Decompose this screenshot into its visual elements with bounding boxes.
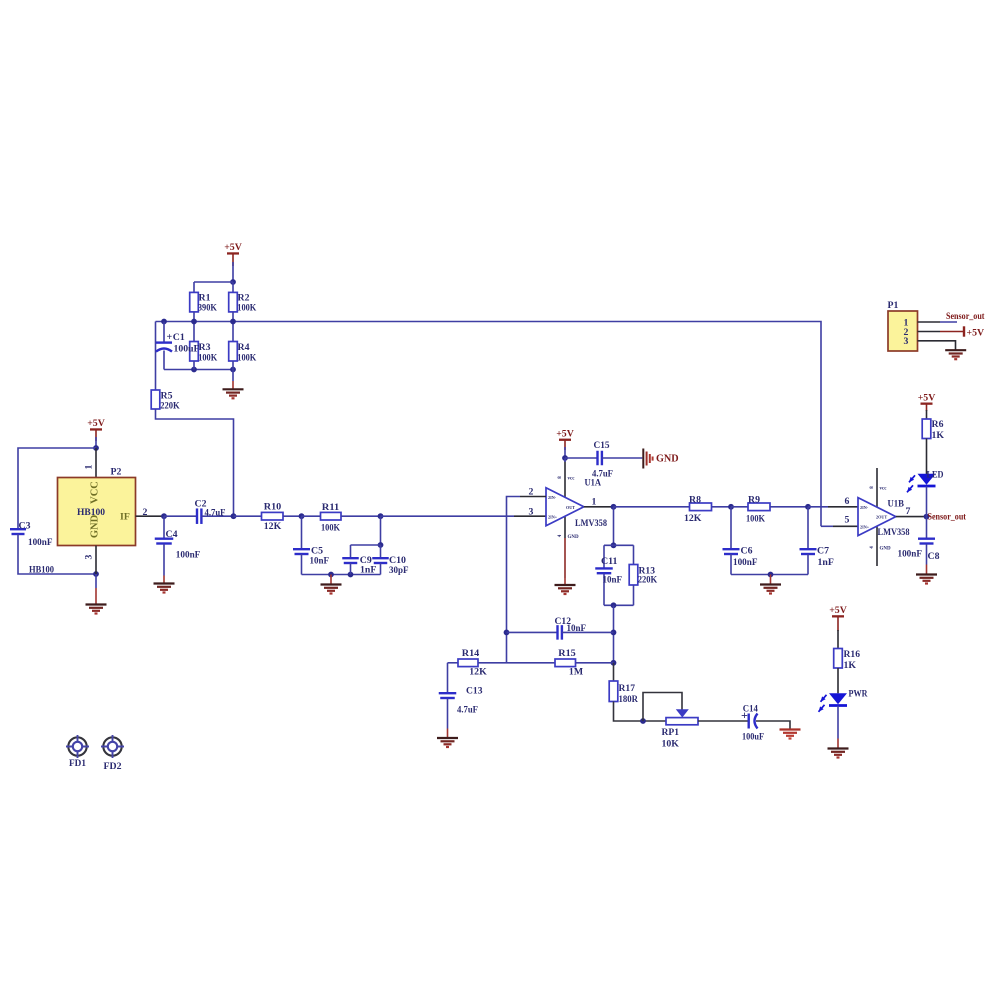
wire C6 top stem — [730, 507, 732, 549]
capacitor C3 — [10, 529, 26, 534]
svg-text:7: 7 — [906, 506, 911, 517]
wire R16 to PWR LED — [837, 668, 839, 693]
ground (HB100) — [86, 605, 107, 614]
wire U1A supply line — [564, 461, 566, 538]
wire IF node — [164, 515, 197, 517]
wire U1A out to R8 — [614, 506, 690, 508]
svg-text:vcc: vcc — [568, 477, 576, 482]
wire ref to pin5 — [821, 525, 833, 527]
svg-text:1: 1 — [84, 464, 95, 469]
wire C5 top stem — [301, 516, 303, 549]
junction C5 tap — [299, 513, 305, 519]
wire R5 to signal node — [156, 409, 234, 516]
wire R6 to LED — [926, 439, 928, 475]
svg-text:1nF: 1nF — [360, 565, 376, 576]
wire R17 to pot — [614, 702, 667, 722]
capacitor C2 — [197, 508, 201, 524]
wire node to R11 — [302, 515, 321, 517]
resistor R9 — [748, 503, 770, 511]
junction gnd tap (stage2) — [768, 572, 774, 578]
svg-text:R4: R4 — [238, 342, 250, 353]
wire to U1A in+ — [381, 515, 515, 517]
svg-text:2IN+: 2IN+ — [860, 525, 870, 530]
wire mid node row — [156, 321, 234, 323]
op-amp U1B pin 5 — [833, 525, 858, 527]
ground (PWR) — [828, 749, 849, 758]
wire to R17 — [613, 663, 615, 681]
resistor R14 — [458, 659, 478, 667]
svg-text:+5V: +5V — [967, 327, 985, 338]
resistor R1 — [190, 292, 199, 312]
resistor R4 — [229, 342, 238, 362]
svg-text:C3: C3 — [19, 520, 31, 531]
wire +5V to pin1 node — [95, 437, 97, 448]
wire C14 right — [756, 721, 790, 730]
wire C15 to GND port — [602, 457, 642, 459]
svg-text:P1: P1 — [888, 300, 899, 311]
wire C13 bottom — [447, 699, 449, 729]
resistor R17 — [609, 681, 618, 702]
wire R1 top drop — [193, 282, 195, 292]
svg-text:220K: 220K — [638, 575, 658, 586]
svg-text:vcc: vcc — [880, 487, 888, 492]
junction R4 bottom — [230, 367, 236, 373]
svg-text:100nF: 100nF — [28, 537, 53, 548]
wire +5V to R16 — [837, 630, 839, 649]
op-amp U1A pin 3 — [514, 515, 546, 517]
junction R3 bottom — [191, 367, 197, 373]
svg-text:+5V: +5V — [87, 418, 105, 429]
wire C7 bottom stem — [807, 554, 809, 575]
svg-text:100nF: 100nF — [898, 548, 923, 559]
wire R14 to R15 — [478, 662, 555, 664]
connector P1 pin 3 — [918, 341, 956, 350]
svg-text:30pF: 30pF — [389, 565, 409, 576]
svg-text:4: 4 — [870, 546, 875, 549]
wire +5V to node — [232, 262, 234, 282]
resistor R2 — [229, 292, 238, 312]
svg-text:6: 6 — [845, 496, 850, 507]
svg-text:R16: R16 — [844, 649, 861, 660]
wire R1 to mid node — [193, 312, 195, 342]
wire R15 right — [576, 662, 614, 664]
svg-text:+5V: +5V — [224, 242, 242, 253]
wire R4 bottom — [232, 361, 234, 370]
capacitor C15 — [598, 451, 602, 466]
svg-text:100K: 100K — [746, 514, 765, 525]
capacitor C14 (polarized) — [749, 714, 758, 729]
connector P2 pin 2 — [136, 515, 165, 517]
svg-text:FD2: FD2 — [104, 761, 122, 772]
svg-text:Sensor_out: Sensor_out — [946, 311, 985, 322]
svg-text:+5V: +5V — [829, 605, 847, 616]
ground stem (PWR) — [837, 739, 839, 749]
wire bottom rail — [164, 369, 233, 371]
resistor R10 — [262, 512, 284, 520]
wire C9 C10 top rail — [351, 544, 381, 546]
ground stem (stage2) — [770, 575, 772, 585]
wire filter bottom rail — [302, 574, 381, 576]
wire R13 top stem — [633, 545, 635, 564]
connector P1 pin 2 — [918, 331, 941, 333]
wire node to R1 top — [194, 281, 233, 283]
svg-text:R9: R9 — [748, 494, 760, 505]
svg-text:100K: 100K — [321, 522, 340, 533]
svg-text:Sensor_out: Sensor_out — [928, 511, 967, 522]
svg-text:C14: C14 — [743, 704, 758, 715]
svg-text:U1A: U1A — [585, 477, 602, 488]
op-amp U1A pin 1 — [584, 506, 614, 508]
resistor R5 — [151, 390, 160, 409]
wire C9 bottom stem — [350, 563, 352, 575]
junction C10 top — [378, 542, 384, 548]
wire C10 top stem — [380, 545, 382, 558]
svg-text:100uF: 100uF — [174, 344, 200, 355]
svg-text:R6: R6 — [932, 419, 944, 430]
wire C1 bottom stem — [163, 351, 165, 370]
capacitor C4 — [155, 539, 174, 544]
ground stem (U1A) — [564, 578, 566, 585]
svg-text:100nF: 100nF — [176, 549, 201, 560]
connector P1 body — [888, 311, 918, 351]
ground stem (bias) — [232, 381, 234, 389]
wire fb box top rail — [604, 544, 634, 546]
svg-text:VCC: VCC — [90, 481, 101, 504]
wire C7 top stem — [807, 507, 809, 549]
power +5V (R6) — [918, 392, 936, 411]
junction +5V node — [230, 279, 236, 285]
svg-text:+5V: +5V — [918, 392, 936, 403]
svg-text:100K: 100K — [237, 352, 256, 363]
wire in- feedback — [507, 497, 521, 663]
svg-text:C15: C15 — [594, 440, 610, 451]
svg-text:GND: GND — [880, 547, 892, 552]
wire C12 right — [562, 631, 614, 633]
wire +5V to R6 — [926, 410, 928, 419]
wire C12 left — [507, 631, 558, 633]
junction C12 right — [611, 630, 617, 636]
capacitor C6 — [723, 549, 740, 554]
connector P2 pin 3 — [95, 546, 97, 575]
wire R10 to node — [283, 515, 302, 517]
svg-text:8: 8 — [870, 486, 875, 489]
svg-text:P2: P2 — [111, 466, 122, 477]
power +5V (U1A) — [556, 428, 574, 450]
wire R13 bottom stem — [633, 585, 635, 605]
svg-text:2IN+: 2IN+ — [548, 515, 558, 520]
junction U1A output — [611, 504, 617, 510]
wire fb box bottom rail — [604, 604, 634, 606]
wire U1A vcc node stub — [564, 458, 566, 462]
svg-text:GND: GND — [568, 535, 580, 540]
junction R2 R4 — [230, 319, 236, 325]
junction C1 top — [161, 319, 167, 325]
svg-text:C7: C7 — [817, 545, 829, 556]
svg-text:2IN-: 2IN- — [548, 495, 557, 500]
svg-text:2OUT: 2OUT — [876, 515, 887, 520]
svg-text:180R: 180R — [619, 694, 639, 705]
svg-text:LMV358: LMV358 — [575, 518, 607, 529]
junction R15 right — [611, 660, 617, 666]
capacitor C12 — [558, 625, 562, 640]
svg-text:100K: 100K — [198, 352, 217, 363]
op-amp U1B pin 7 — [896, 516, 927, 518]
resistor R15 — [555, 659, 576, 667]
ground (U1A) — [555, 585, 576, 594]
resistor R11 — [321, 512, 342, 520]
svg-text:1M: 1M — [569, 666, 583, 677]
wire +5V to C15 node — [564, 447, 566, 458]
junction C9 bottom — [348, 572, 354, 578]
ground stem (filter) — [330, 575, 332, 585]
wire C11 top stem — [603, 545, 605, 568]
junction fb box bottom — [611, 602, 617, 608]
resistor R6 — [922, 419, 931, 439]
connector P2 body — [58, 478, 136, 546]
wire C8 bottom — [926, 544, 928, 565]
svg-text:12K: 12K — [684, 513, 702, 524]
wire C3 bottom — [18, 534, 96, 574]
ground (bias network) — [223, 389, 244, 398]
potentiometer RP1 — [666, 718, 698, 725]
svg-text:LMV358: LMV358 — [878, 527, 910, 538]
wire reference net to U1B — [233, 322, 821, 527]
ground stem (C8) — [926, 565, 928, 575]
svg-text:HB100: HB100 — [29, 564, 54, 575]
svg-text:C4: C4 — [166, 529, 178, 540]
capacitor C13 — [439, 693, 457, 698]
capacitor C11 — [595, 568, 613, 573]
svg-text:1K: 1K — [932, 430, 945, 441]
svg-text:OUT: OUT — [566, 505, 575, 510]
wire to R10 — [234, 515, 262, 517]
junction C9 C10 tap — [378, 513, 384, 519]
connector P2 pin 1 — [95, 448, 97, 478]
op-amp U1B pin 6 — [828, 506, 858, 508]
ground (C13) — [437, 738, 458, 747]
svg-text:GND: GND — [656, 454, 679, 465]
connector P1 pin 1 — [918, 321, 941, 323]
wire wiper link — [643, 693, 682, 722]
power +5V (HB100) — [87, 418, 105, 441]
wire R8 to node — [712, 506, 732, 508]
wire Sensor_out (P1) — [940, 321, 957, 323]
svg-text:220K: 220K — [160, 401, 180, 412]
junction HB100 gnd — [93, 571, 99, 577]
junction C4 tap — [161, 513, 167, 519]
junction R1 R3 — [191, 319, 197, 325]
wire to C15 — [565, 457, 598, 459]
svg-text:8: 8 — [558, 476, 563, 479]
svg-text:R8: R8 — [689, 494, 701, 505]
resistor R16 — [834, 649, 843, 669]
svg-text:10nF: 10nF — [310, 556, 330, 567]
svg-text:FD1: FD1 — [69, 758, 86, 769]
ground (filter) — [321, 585, 342, 594]
svg-text:GND: GND — [90, 514, 101, 538]
svg-text:1K: 1K — [844, 660, 857, 671]
wire to C3 — [18, 448, 96, 529]
svg-text:100uF: 100uF — [742, 731, 764, 742]
ground stem (C13) — [447, 729, 449, 739]
svg-text:3: 3 — [529, 506, 534, 517]
capacitor C5 — [293, 549, 310, 554]
ground (P1) — [945, 350, 966, 359]
wire node to U1B — [808, 506, 828, 508]
junction R5 bias — [231, 513, 237, 519]
ground (stage2) — [760, 585, 781, 594]
svg-text:U1B: U1B — [888, 498, 905, 509]
svg-text:C1: C1 — [173, 332, 185, 343]
wire C9 top stem — [350, 545, 352, 558]
wire LED to output node — [926, 486, 928, 516]
wire to ground (bias) — [232, 370, 234, 382]
op-amp U1A pin 2 — [520, 496, 546, 498]
svg-text:LED: LED — [927, 469, 944, 480]
ground stem (HB100) — [95, 588, 97, 605]
svg-text:4: 4 — [558, 534, 563, 537]
wire fb down — [613, 605, 615, 663]
junction U1B output — [924, 514, 930, 520]
junction C6 tap — [728, 504, 734, 510]
svg-text:RP1: RP1 — [662, 727, 680, 738]
fiducial FD1 — [66, 735, 89, 758]
svg-text:R14: R14 — [462, 648, 480, 659]
junction U1A vcc — [562, 455, 568, 461]
junction C7 tap — [805, 504, 811, 510]
resistor R3 — [190, 342, 199, 362]
LED diode PWR — [819, 693, 848, 712]
wire C4 stem — [163, 516, 165, 538]
svg-text:12K: 12K — [264, 521, 282, 532]
svg-text:+5V: +5V — [556, 428, 574, 439]
capacitor C1 (polarized) — [156, 343, 172, 352]
wire gnd stem (HB100) — [95, 574, 97, 588]
svg-text:2: 2 — [529, 486, 534, 497]
ground stem (C4) — [163, 576, 165, 584]
svg-text:10K: 10K — [662, 738, 680, 749]
junction fb box top — [611, 542, 617, 548]
power +5V (P1 pin2) — [940, 326, 965, 336]
junction C12 left — [504, 630, 510, 636]
svg-text:2IN-: 2IN- — [860, 505, 869, 510]
wire node to C8 — [926, 517, 928, 539]
wire C6 bottom stem — [730, 554, 732, 575]
svg-text:4.7uF: 4.7uF — [457, 704, 478, 715]
svg-text:100K: 100K — [237, 303, 256, 314]
wire C9 C10 top drop — [380, 516, 382, 545]
capacitor C9 — [342, 558, 359, 563]
resistor R13 — [629, 565, 638, 586]
wire R2 to mid node — [232, 312, 234, 342]
junction HB100 vcc — [93, 445, 99, 451]
svg-text:C11: C11 — [601, 556, 618, 567]
wire PWR LED to gnd — [837, 706, 839, 739]
wire output to fb box — [613, 507, 615, 546]
ground (C8) — [916, 575, 937, 584]
op-amp U1B — [858, 498, 896, 536]
wire C4 bottom — [163, 544, 165, 576]
ground (C14) — [780, 730, 801, 739]
junction gnd tap (filter) — [328, 572, 334, 578]
ground (C4) — [154, 584, 175, 593]
svg-text:10nF: 10nF — [603, 575, 623, 586]
capacitor C8 — [918, 539, 935, 544]
svg-text:+: + — [167, 332, 173, 343]
svg-text:R3: R3 — [199, 342, 211, 353]
wire C13 top stem — [447, 663, 449, 693]
capacitor C7 — [800, 549, 817, 554]
svg-text:R11: R11 — [322, 502, 340, 513]
resistor R8 — [690, 503, 712, 511]
svg-text:5: 5 — [845, 514, 850, 525]
wire R2 top drop — [232, 282, 234, 292]
svg-text:IF: IF — [120, 512, 130, 523]
ground stem upper (U1A) — [564, 538, 566, 578]
junction pot wiper — [640, 718, 646, 724]
power +5V (R16) — [829, 605, 847, 631]
svg-text:100nF: 100nF — [733, 557, 758, 568]
wire R11 to node — [341, 515, 381, 517]
svg-text:2: 2 — [143, 507, 148, 518]
svg-text:C13: C13 — [466, 685, 483, 696]
wire C11 bottom stem — [603, 573, 605, 605]
fiducial FD2 — [101, 735, 124, 758]
wire R14 left — [448, 662, 459, 664]
svg-text:390K: 390K — [198, 303, 217, 314]
wire node to R5 — [155, 322, 157, 391]
wire C2 to R10 — [201, 515, 233, 517]
wire C5 bottom stem — [301, 554, 303, 575]
svg-text:C8: C8 — [928, 551, 940, 562]
svg-text:12K: 12K — [469, 666, 487, 677]
svg-text:10nF: 10nF — [567, 623, 587, 634]
svg-text:3: 3 — [84, 554, 95, 559]
svg-text:1nF: 1nF — [818, 557, 834, 568]
power port GND (bar style) — [643, 449, 652, 469]
wire stage2 bottom rail — [731, 574, 808, 576]
wire pot to C14 — [698, 720, 749, 722]
wire R3 bottom — [193, 361, 195, 370]
svg-text:R15: R15 — [558, 648, 576, 659]
svg-text:C6: C6 — [741, 545, 753, 556]
wire C1 top stem — [163, 322, 165, 343]
svg-text:R5: R5 — [161, 390, 173, 401]
power +5V (bias network) — [224, 242, 242, 266]
wire node to R9 — [731, 506, 748, 508]
svg-text:R17: R17 — [619, 683, 636, 694]
svg-text:PWR: PWR — [849, 689, 869, 700]
capacitor C10 — [372, 558, 389, 563]
LED diode (Sensor_out) — [907, 474, 936, 493]
op-amp U1A — [546, 488, 584, 526]
svg-text:4.7uF: 4.7uF — [205, 507, 226, 518]
svg-text:3: 3 — [904, 336, 909, 347]
wire C10 bottom stem — [380, 563, 382, 575]
svg-text:R10: R10 — [264, 501, 282, 512]
svg-text:1: 1 — [592, 496, 597, 507]
wire R9 to node — [770, 506, 808, 508]
wire U1B supply line — [876, 468, 878, 566]
